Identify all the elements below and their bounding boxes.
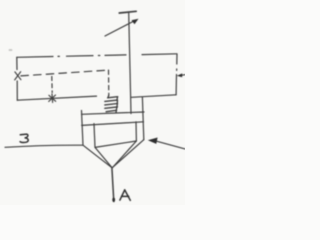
inner-right vertical [135, 122, 137, 141]
label B (handwritten) [20, 134, 28, 142]
faint smudge top-left [9, 49, 13, 51]
dashed branch vertical down to asterisk [51, 77, 53, 93]
enclosure left vertical [16, 57, 19, 100]
flow line down right side into body [142, 97, 143, 139]
dashed pilot line vertical down to spring [108, 70, 110, 95]
dashed pilot line horizontal (from x port) [21, 70, 109, 76]
label A (hand printed) [120, 190, 130, 200]
inner V right diagonal [112, 141, 136, 168]
seat line [95, 141, 136, 147]
enclosure right vertical dash-dot [175, 54, 178, 95]
port B line [5, 145, 83, 147]
V left outer diagonal [83, 145, 112, 168]
body left edge [82, 111, 84, 146]
adjustment stem (vertical) [129, 13, 131, 114]
inner V left diagonal [95, 147, 112, 167]
asterisk on bottom line [49, 94, 56, 102]
enclosure top dash-dot line [17, 54, 177, 58]
adjustment arrow (diagonal through stem) [105, 19, 139, 36]
right callout arrow [177, 73, 185, 77]
body band bottom line [82, 122, 144, 126]
port A line [112, 168, 114, 202]
body band top line [82, 112, 145, 114]
ink blob at end of A line [112, 198, 115, 202]
port x mark [15, 72, 21, 80]
bottom callout arrow [148, 138, 185, 149]
spring [105, 95, 118, 113]
inner-left vertical [94, 124, 95, 148]
enclosure bottom-right line [132, 95, 177, 98]
enclosure bottom-left line [17, 96, 96, 100]
adjustment screw T-cap [119, 11, 136, 13]
V right outer diagonal [112, 140, 143, 168]
